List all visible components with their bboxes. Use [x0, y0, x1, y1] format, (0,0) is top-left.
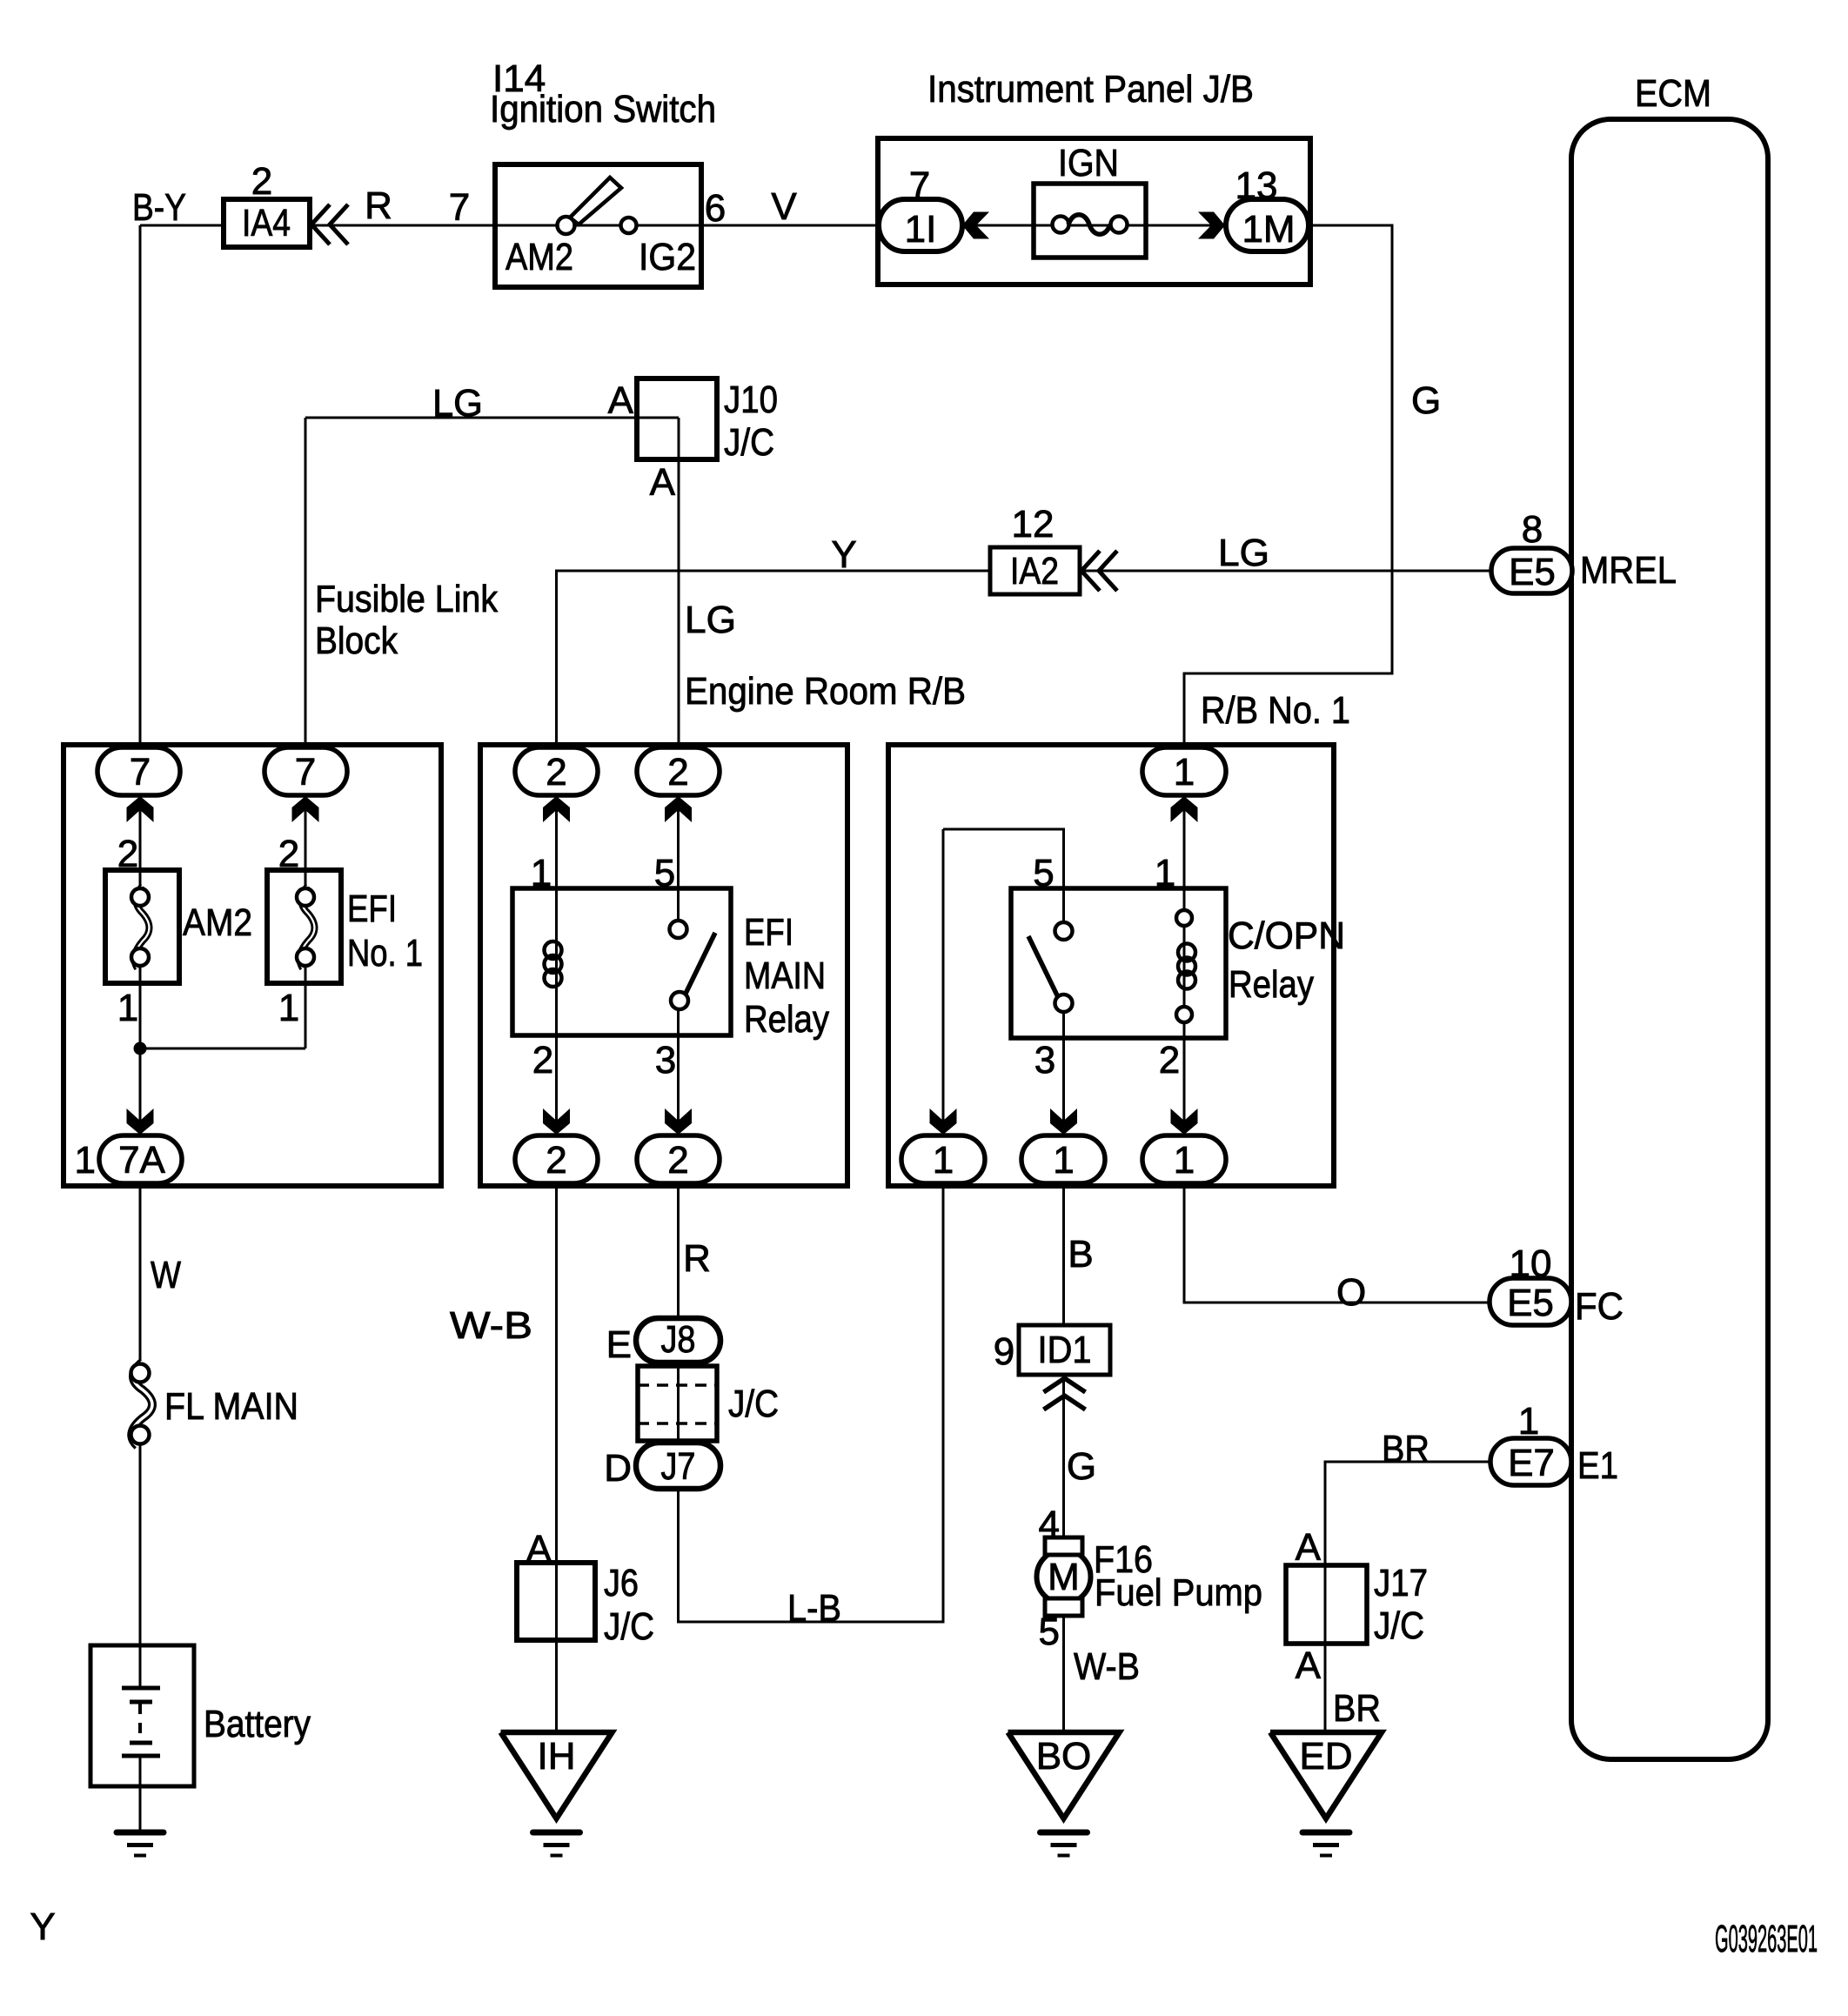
- svg-text:1: 1: [1518, 1400, 1539, 1443]
- svg-text:BO: BO: [1036, 1735, 1092, 1778]
- svg-text:1: 1: [278, 987, 299, 1029]
- svg-text:J7: J7: [661, 1445, 696, 1488]
- svg-text:1: 1: [1174, 751, 1195, 794]
- svg-text:LG: LG: [1218, 532, 1269, 574]
- svg-text:1M: 1M: [1242, 208, 1295, 251]
- svg-text:2: 2: [117, 833, 138, 875]
- svg-text:FC: FC: [1575, 1285, 1624, 1328]
- svg-text:IA4: IA4: [242, 202, 291, 244]
- svg-text:ID1: ID1: [1038, 1329, 1092, 1371]
- svg-text:LG: LG: [432, 382, 483, 425]
- svg-text:3: 3: [1034, 1039, 1055, 1082]
- svg-text:A: A: [608, 379, 634, 422]
- svg-text:13: 13: [1235, 164, 1278, 207]
- svg-text:4: 4: [1039, 1504, 1060, 1546]
- svg-text:AM2: AM2: [183, 901, 252, 944]
- svg-text:Relay: Relay: [744, 998, 829, 1041]
- svg-text:Block: Block: [315, 620, 398, 662]
- svg-text:AM2: AM2: [506, 236, 573, 278]
- svg-text:IG2: IG2: [639, 236, 696, 278]
- svg-text:E5: E5: [1507, 1282, 1554, 1324]
- svg-text:E7: E7: [1508, 1442, 1555, 1484]
- svg-text:1: 1: [1053, 1139, 1074, 1182]
- svg-text:E5: E5: [1509, 551, 1556, 593]
- svg-text:A: A: [526, 1528, 552, 1571]
- svg-text:Fusible Link: Fusible Link: [315, 578, 499, 620]
- svg-text:2: 2: [1159, 1039, 1180, 1082]
- svg-text:Ignition Switch: Ignition Switch: [490, 88, 716, 131]
- svg-text:J8: J8: [661, 1318, 696, 1361]
- svg-text:1: 1: [1174, 1139, 1195, 1182]
- svg-text:E1: E1: [1577, 1444, 1618, 1487]
- svg-text:IA2: IA2: [1010, 550, 1059, 593]
- svg-text:J6: J6: [604, 1562, 639, 1604]
- svg-text:M: M: [1048, 1556, 1080, 1598]
- svg-text:Relay: Relay: [1229, 963, 1314, 1006]
- svg-text:V: V: [771, 185, 797, 228]
- svg-text:J17: J17: [1374, 1562, 1428, 1604]
- svg-text:IH: IH: [538, 1735, 576, 1778]
- svg-text:2: 2: [278, 833, 299, 875]
- svg-text:E: E: [606, 1323, 632, 1366]
- svg-text:W-B: W-B: [450, 1304, 532, 1347]
- svg-text:A: A: [1296, 1526, 1322, 1569]
- svg-text:C/OPN: C/OPN: [1228, 914, 1345, 957]
- svg-text:Y: Y: [30, 1905, 55, 1948]
- svg-text:A: A: [650, 461, 676, 504]
- svg-text:R: R: [683, 1237, 711, 1280]
- svg-text:2: 2: [546, 1139, 566, 1182]
- svg-text:B: B: [1068, 1233, 1093, 1276]
- svg-text:2: 2: [667, 1139, 688, 1182]
- svg-text:MREL: MREL: [1580, 549, 1677, 592]
- svg-text:EFI: EFI: [347, 887, 397, 930]
- svg-text:LG: LG: [685, 599, 736, 641]
- svg-text:ED: ED: [1299, 1735, 1352, 1778]
- svg-text:10: 10: [1510, 1242, 1552, 1285]
- svg-text:J/C: J/C: [604, 1605, 654, 1648]
- svg-text:2: 2: [546, 751, 566, 794]
- svg-text:1: 1: [531, 852, 552, 894]
- svg-text:7: 7: [909, 164, 930, 207]
- svg-text:W: W: [151, 1254, 181, 1296]
- svg-text:J/C: J/C: [724, 421, 774, 464]
- svg-text:MAIN: MAIN: [744, 954, 826, 997]
- svg-text:G: G: [1067, 1445, 1096, 1488]
- svg-text:Instrument Panel J/B: Instrument Panel J/B: [927, 68, 1254, 111]
- svg-text:J10: J10: [724, 378, 778, 421]
- svg-text:7: 7: [130, 751, 151, 794]
- svg-text:8: 8: [1522, 508, 1543, 551]
- svg-text:B-Y: B-Y: [132, 186, 186, 229]
- svg-text:Engine Room R/B: Engine Room R/B: [685, 670, 966, 713]
- svg-text:7: 7: [295, 751, 316, 794]
- svg-text:1: 1: [117, 987, 138, 1029]
- svg-text:IGN: IGN: [1058, 142, 1119, 184]
- svg-text:2: 2: [532, 1039, 553, 1082]
- svg-text:1I: 1I: [905, 208, 937, 251]
- svg-text:R: R: [365, 184, 392, 227]
- svg-text:A: A: [1296, 1644, 1322, 1687]
- svg-text:J/C: J/C: [1374, 1604, 1424, 1647]
- svg-text:1: 1: [933, 1139, 954, 1182]
- svg-text:Y: Y: [831, 533, 856, 576]
- svg-text:Fuel Pump: Fuel Pump: [1095, 1571, 1262, 1614]
- svg-text:12: 12: [1012, 503, 1055, 546]
- svg-text:1: 1: [1155, 852, 1175, 894]
- svg-text:Battery: Battery: [204, 1703, 311, 1745]
- svg-text:5: 5: [1039, 1611, 1060, 1653]
- svg-text:9: 9: [994, 1330, 1014, 1373]
- svg-text:O: O: [1336, 1271, 1366, 1314]
- svg-text:3: 3: [655, 1039, 676, 1082]
- svg-text:D: D: [604, 1447, 632, 1490]
- svg-text:5: 5: [654, 852, 675, 894]
- svg-text:2: 2: [251, 160, 272, 203]
- svg-text:ECM: ECM: [1635, 72, 1711, 115]
- svg-text:7: 7: [449, 186, 470, 229]
- svg-text:W-B: W-B: [1074, 1645, 1140, 1688]
- svg-text:FL MAIN: FL MAIN: [164, 1385, 298, 1428]
- svg-text:G: G: [1411, 379, 1441, 422]
- svg-text:5: 5: [1033, 852, 1054, 894]
- svg-text:7A: 7A: [118, 1139, 165, 1182]
- svg-text:1: 1: [75, 1139, 96, 1182]
- svg-text:BR: BR: [1382, 1428, 1430, 1470]
- svg-text:G039263E01: G039263E01: [1715, 1918, 1818, 1960]
- svg-text:J/C: J/C: [728, 1383, 779, 1425]
- svg-text:BR: BR: [1333, 1687, 1381, 1730]
- svg-text:No. 1: No. 1: [347, 932, 423, 975]
- svg-text:R/B No. 1: R/B No. 1: [1201, 689, 1350, 732]
- svg-text:6: 6: [705, 187, 726, 230]
- svg-text:2: 2: [667, 751, 688, 794]
- svg-text:EFI: EFI: [744, 911, 793, 954]
- svg-text:L-B: L-B: [787, 1587, 841, 1630]
